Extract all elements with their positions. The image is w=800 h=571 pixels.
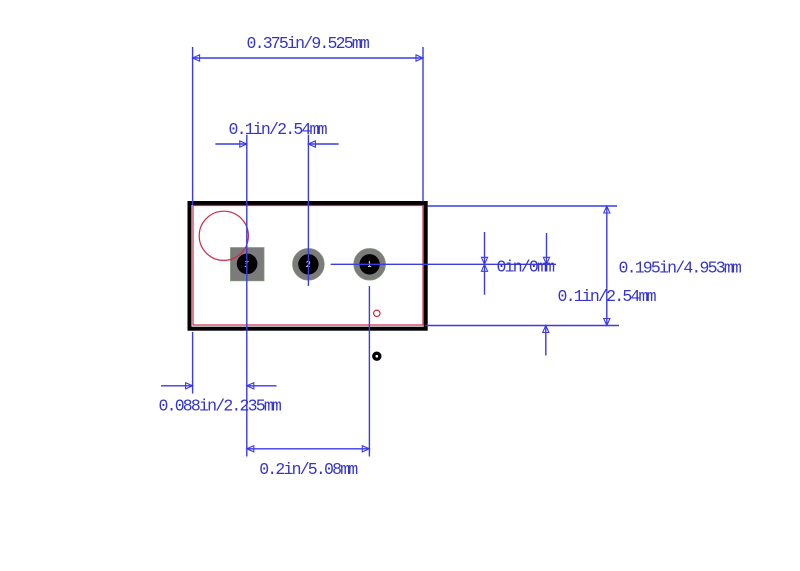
- pad 1 (round pad): [354, 248, 386, 280]
- arrowhead right of 0.2 dimension: [362, 446, 369, 452]
- body bottom extension line to right: [426, 325, 620, 327]
- centerline through pad 3 (vertical): [246, 135, 248, 457]
- svg-text:0.088in/2.235mm: 0.088in/2.235mm: [159, 397, 282, 416]
- dimension line 0.195in height: [606, 206, 608, 326]
- centerline through pad 2 (vertical): [307, 135, 309, 286]
- pad number 3: [245, 262, 248, 267]
- zero dimension second arrow at pad1 centerline: [546, 233, 548, 264]
- arrowhead right of 0.375 dimension: [416, 55, 423, 61]
- arrow pointing left at pad2 line: [309, 143, 338, 145]
- arrowhead left of 0.375 dimension: [193, 55, 200, 61]
- left extension line below body: [192, 332, 194, 394]
- origin marker (black donut): [374, 353, 380, 359]
- silkscreen rectangle (red): [193, 206, 423, 326]
- arrowhead top of 0.195 dimension: [604, 206, 610, 213]
- pad 3 drill: [237, 253, 258, 274]
- svg-text:0.1in/2.54mm: 0.1in/2.54mm: [229, 120, 328, 139]
- arrow pointing right at pad3 line: [215, 143, 246, 145]
- pad number 2: [307, 261, 310, 266]
- pad 2 (round pad): [293, 248, 325, 280]
- zero dimension converging arrows at pad1 centerline: [484, 232, 486, 295]
- arrowhead bottom of 0.195 dimension: [604, 319, 610, 326]
- arrow pointing right to body left edge: [161, 385, 192, 387]
- body top extension line to right: [428, 205, 618, 207]
- pad number 1: [368, 262, 371, 267]
- svg-text:0in/0mm: 0in/0mm: [497, 258, 556, 277]
- svg-text:0.375in/9.525mm: 0.375in/9.525mm: [247, 34, 370, 53]
- extension line right of body top dimension: [422, 47, 424, 202]
- arrow below body pointing up to body bottom: [545, 326, 547, 355]
- svg-text:0.1in/2.54mm: 0.1in/2.54mm: [558, 287, 657, 306]
- centerline below pad 1 (vertical): [368, 286, 370, 457]
- pin-1 indicator circle (red): [199, 211, 248, 260]
- svg-text:0.195in/4.953mm: 0.195in/4.953mm: [619, 259, 742, 278]
- svg-text:0.2in/5.08mm: 0.2in/5.08mm: [259, 460, 358, 479]
- dimension line 0.375in width: [193, 57, 423, 59]
- pad 1 drill: [359, 254, 379, 274]
- arrow pointing left to pad3 line: [248, 385, 277, 387]
- small silkscreen circle (red): [374, 310, 380, 316]
- extension line left of body top dimension: [192, 47, 194, 205]
- centerline through pad 1 (horizontal): [331, 263, 556, 265]
- pad 3 (square pad): [231, 248, 265, 281]
- pad 2 drill: [298, 254, 318, 274]
- arrowhead left of 0.2 dimension: [247, 446, 254, 452]
- dimension line 0.2in pad1 to pad3: [247, 448, 369, 450]
- component body outline (black): [190, 203, 426, 329]
